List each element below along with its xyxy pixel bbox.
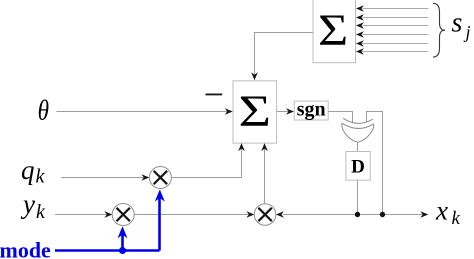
blue mode wire horizontal [55, 249, 160, 252]
multiplier M3 (on output line) [254, 204, 276, 226]
label s_j [452, 8, 471, 42]
svg-text:x: x [435, 196, 448, 226]
label x_k [435, 196, 461, 229]
wire U2 output to U1 top [251, 33, 313, 81]
wire xor output to D box [357, 142, 359, 151]
wire M1 to U1 bottom (right then up) [171, 143, 244, 177]
wire sgn output to xor left input [328, 112, 352, 123]
svg-text:mode: mode [0, 237, 51, 259]
blue arrow up into M2 [118, 226, 128, 250]
sgn box [294, 98, 328, 120]
svg-text:θ: θ [38, 94, 49, 126]
svg-text:sgn: sgn [297, 98, 326, 120]
svg-text:j: j [464, 22, 471, 42]
wire feedback to xor right input [367, 112, 383, 215]
svg-text:D: D [351, 156, 365, 177]
wire M3 up to U1 bottom [261, 143, 268, 204]
wire M2 to multiplier M3 [134, 211, 254, 218]
multiplier M1 (on q_k line) [149, 167, 171, 189]
summation box U1 (middle) [233, 81, 277, 143]
delay box D [346, 152, 370, 181]
input arrows s_j into U2 (6 wires) [356, 5, 429, 55]
multiplier M2 (on y_k line) [112, 204, 134, 226]
summation box U2 (top right) [313, 0, 356, 63]
svg-text:Σ: Σ [239, 86, 272, 135]
label y_k [20, 189, 46, 223]
junction node feedback tap [380, 212, 385, 217]
wire theta to U1 [56, 108, 232, 115]
svg-text:k: k [36, 165, 46, 187]
svg-text:s: s [452, 8, 463, 39]
junction node below D [355, 212, 360, 217]
wire q_k to multiplier M1 [61, 174, 149, 181]
svg-text:q: q [21, 155, 35, 185]
blue arrow up into M1 [155, 190, 165, 251]
label q_k [21, 155, 46, 187]
label theta [38, 94, 49, 126]
svg-text:y: y [20, 189, 35, 219]
svg-text:Σ: Σ [318, 6, 348, 54]
xor gate G1 [342, 118, 374, 142]
svg-text:k: k [452, 208, 461, 229]
brace for s_j inputs [433, 3, 445, 57]
output line to x_k with arrow into M3 [276, 211, 428, 218]
blue junction dot [119, 247, 126, 254]
minus sign at U1 top-left [206, 93, 223, 95]
wire U1 to sgn [277, 108, 294, 115]
wire D box output down to output line [357, 180, 359, 214]
wire y_k to multiplier M2 [55, 211, 112, 218]
svg-text:k: k [36, 201, 46, 223]
